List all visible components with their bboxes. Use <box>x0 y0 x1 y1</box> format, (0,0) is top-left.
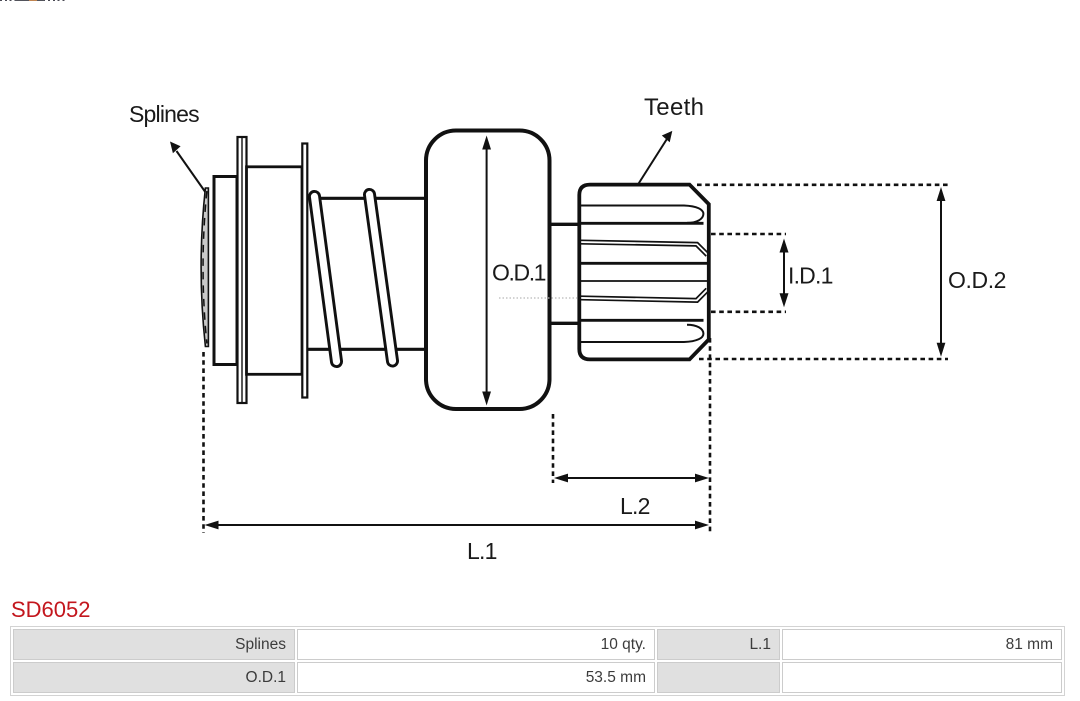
pinion tooth lines <box>581 206 709 343</box>
O.D.2 dimension arrow <box>937 187 946 357</box>
spring coil 2 <box>370 195 393 362</box>
part number heading <box>11 599 91 621</box>
neck bottom edge <box>550 322 580 325</box>
svg-text:L.1: L.1 <box>467 538 497 564</box>
right shared extension dashed <box>709 338 712 534</box>
svg-text:L.2: L.2 <box>620 493 650 519</box>
collar cylinder <box>214 177 237 365</box>
svg-text:Splines: Splines <box>129 101 199 127</box>
svg-text:O.D.2: O.D.2 <box>948 267 1006 293</box>
I.D.1 dimension arrow <box>780 239 789 308</box>
faint axis dotted line <box>499 297 577 299</box>
pinion body <box>579 185 709 360</box>
L.1 left extension dashed <box>202 352 205 533</box>
flange washer 2 <box>302 144 307 398</box>
O.D.2 bottom extension dashed <box>699 358 948 361</box>
svg-text:Teeth: Teeth <box>644 94 704 121</box>
leader arrow to splines <box>170 142 206 194</box>
svg-text:I.D.1: I.D.1 <box>788 263 833 289</box>
L.1 dimension arrow <box>205 521 710 530</box>
svg-text:O.D.1: O.D.1 <box>492 260 546 286</box>
shaft under spring top edge <box>307 197 427 200</box>
O.D.2 top extension dashed <box>697 184 948 187</box>
drum cylinder <box>247 167 303 374</box>
flange washer 1 <box>238 137 247 403</box>
top cropped text fragment <box>0 0 65 1</box>
neck top edge <box>550 223 580 226</box>
L.2 left extension dashed <box>552 414 555 483</box>
spec table <box>10 626 1065 696</box>
shaft under spring bottom edge <box>307 348 427 351</box>
spring coil 1 <box>315 197 337 362</box>
O.D.1 dimension arrow <box>482 136 491 406</box>
L.2 dimension arrow <box>554 474 709 483</box>
I.D.1 bottom extension dashed <box>711 310 786 313</box>
clutch housing <box>426 131 550 410</box>
I.D.1 top extension dashed <box>711 233 786 236</box>
splined shaft end <box>201 188 208 347</box>
leader arrow to teeth <box>639 131 673 184</box>
